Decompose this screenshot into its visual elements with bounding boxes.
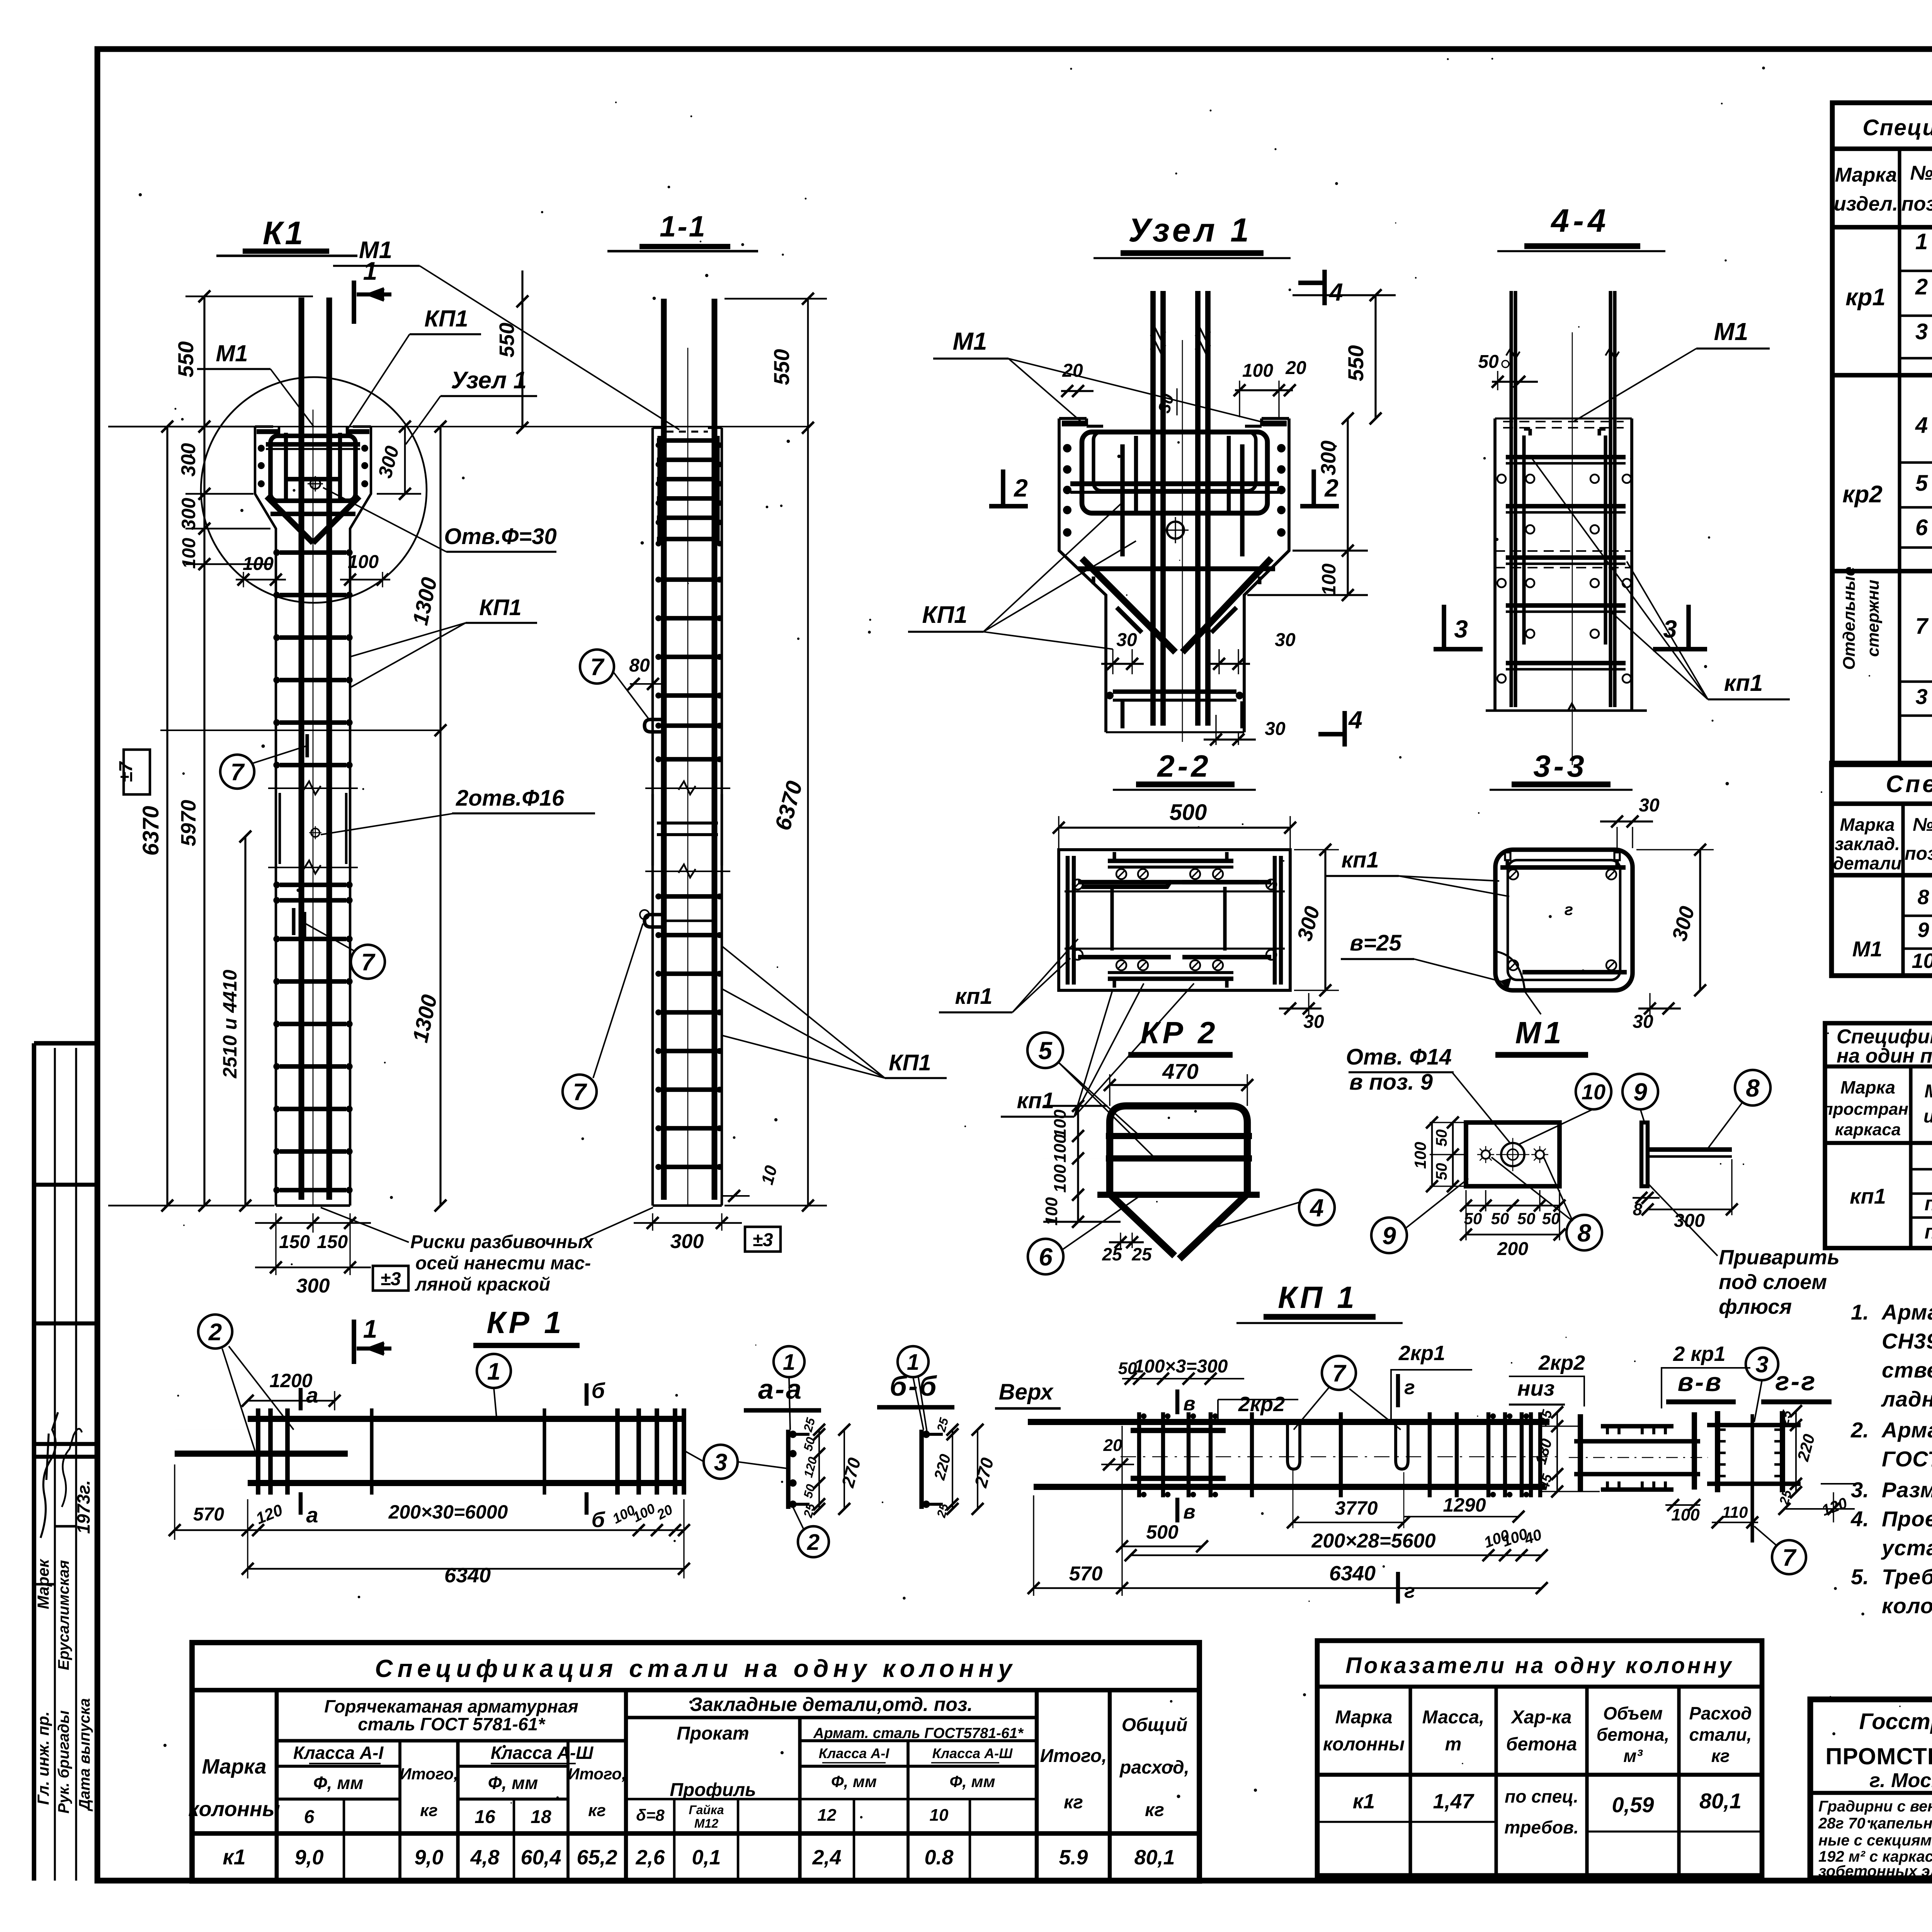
svg-text:КП1: КП1 (424, 306, 468, 332)
g-g circled 7 (1772, 1540, 1806, 1574)
dims 300 300 100 left head (203, 427, 205, 564)
svg-text:3: 3 (1663, 615, 1677, 643)
M1 dims bottom (1466, 1205, 1560, 1207)
column K1 top level line (162, 426, 810, 427)
uzel1 bottom rung (1113, 689, 1236, 694)
svg-text:80,1: 80,1 (1699, 1789, 1742, 1813)
svg-text:бетона: бетона (1506, 1734, 1577, 1755)
svg-text:поз. 7: поз. 7 (1925, 1221, 1932, 1243)
svg-text:100: 100 (1051, 1134, 1070, 1163)
svg-text:Марка: Марка (202, 1755, 267, 1778)
left margin stamp table (34, 1041, 97, 1046)
svg-text:2: 2 (1915, 274, 1928, 299)
svg-text:Требования к бетону и стали и: Требования к бетону и стали и указания п… (1882, 1565, 1932, 1589)
svg-text:простран.: простран. (1823, 1100, 1913, 1119)
44 rungs (1506, 455, 1626, 459)
svg-text:1200: 1200 (269, 1370, 312, 1391)
svg-text:3: 3 (1454, 615, 1468, 643)
svg-text:5.9: 5.9 (1059, 1846, 1088, 1869)
svg-text:ПРОМСТРОЙПРОЕКТ: ПРОМСТРОЙПРОЕКТ (1825, 1743, 1932, 1769)
M1 dims left 50 50 100 (1452, 1122, 1454, 1186)
svg-text:Арматурные изделия должны отве: Арматурные изделия должны отвечать требо… (1881, 1418, 1932, 1442)
uzel1 concrete outline (1059, 418, 1106, 732)
svg-text:ляной краской: ляной краской (415, 1274, 550, 1295)
svg-text:Риски разбивочных: Риски разбивочных (410, 1232, 594, 1252)
KR1 circled 2 (198, 1315, 232, 1349)
svg-text:требов.: требов. (1504, 1817, 1578, 1837)
M1 side view (1641, 1122, 1648, 1186)
svg-text:зобетонных элементов: зобетонных элементов (1818, 1863, 1932, 1880)
svg-text:2отв.Ф16: 2отв.Ф16 (456, 786, 565, 811)
svg-text:80,1: 80,1 (1134, 1846, 1175, 1869)
svg-text:30: 30 (1303, 1012, 1324, 1032)
v-v centerline (1569, 1457, 1708, 1458)
column 1-1 head rungs (657, 438, 718, 443)
svg-text:кп1: кп1 (955, 984, 992, 1009)
column K1 concrete outline head (255, 427, 276, 1206)
uzel1 dims right (1374, 295, 1376, 418)
svg-text:6370: 6370 (138, 806, 163, 855)
svg-text:6: 6 (304, 1807, 315, 1827)
2-2 top KR2 plate and bars (1108, 859, 1233, 863)
plusminus 3 box right column (745, 1227, 781, 1252)
svg-text:Общий: Общий (1122, 1715, 1188, 1735)
v-v dims 45 180 45 (1556, 1412, 1558, 1492)
2-2 dims (1059, 827, 1290, 828)
svg-text:1973г.: 1973г. (73, 1480, 94, 1534)
svg-text:Гл. инж. пр.: Гл. инж. пр. (34, 1711, 52, 1805)
svg-text:7: 7 (1782, 1544, 1797, 1571)
svg-text:а-а: а-а (758, 1374, 803, 1405)
title block (1810, 1699, 1932, 1878)
svg-text:ственный каркас-при помощи сва: ственный каркас-при помощи сварочных кле… (1882, 1358, 1932, 1382)
svg-text:2510 и 4410: 2510 и 4410 (219, 969, 241, 1078)
svg-text:кр1: кр1 (1845, 284, 1886, 311)
2-2 anchor stubs down (1110, 887, 1114, 951)
svg-text:0.8: 0.8 (924, 1846, 953, 1869)
svg-text:Ф, мм: Ф, мм (949, 1772, 995, 1791)
svg-text:КП 1: КП 1 (1278, 1280, 1357, 1315)
svg-text:±7: ±7 (116, 761, 136, 782)
svg-text:300: 300 (178, 498, 199, 530)
g-g dims right (1795, 1411, 1797, 1492)
svg-text:5.: 5. (1851, 1565, 1869, 1589)
svg-text:12: 12 (818, 1806, 837, 1825)
svg-text:колонны: колонны (1323, 1734, 1405, 1755)
svg-text:г: г (1404, 1580, 1415, 1602)
svg-text:Спецификация стали на одну зак: Спецификация стали на одну закладную дет… (1886, 771, 1932, 798)
M1 circled pos numbers (1576, 1074, 1611, 1109)
KR1 bottom chord bar (248, 1480, 684, 1486)
svg-text:±3: ±3 (380, 1269, 401, 1289)
uzel1 section marks 4-4 (1322, 270, 1327, 305)
svg-text:М1: М1 (1714, 318, 1748, 345)
KP1 left block kr2 bars in plan (1131, 1428, 1226, 1433)
svg-text:6340: 6340 (1329, 1562, 1376, 1585)
dim 300 right head (404, 427, 406, 494)
svg-text:550: 550 (173, 341, 198, 377)
svg-text:кг: кг (588, 1801, 606, 1820)
svg-text:каркаса: каркаса (1835, 1120, 1901, 1139)
svg-text:3.: 3. (1851, 1478, 1869, 1502)
svg-text:Показатели на одну колонну: Показатели на одну колонну (1345, 1653, 1734, 1678)
svg-text:100: 100 (1051, 1109, 1070, 1138)
svg-text:80: 80 (629, 655, 650, 676)
g-g dim 110 (1712, 1522, 1758, 1523)
svg-text:3770: 3770 (1335, 1497, 1378, 1519)
svg-text:1: 1 (487, 1358, 500, 1385)
svg-text:25: 25 (1131, 1244, 1152, 1264)
column K1 taper stirrup (270, 512, 355, 516)
3-3 corner cut flag (1495, 951, 1525, 990)
svg-text:2,6: 2,6 (635, 1846, 665, 1869)
svg-text:на один пространственный карка: на один пространственный каркас (1837, 1045, 1932, 1067)
svg-text:0,59: 0,59 (1612, 1793, 1654, 1817)
KR1 dim 1200 (248, 1400, 335, 1402)
svg-text:10: 10 (1582, 1080, 1605, 1104)
svg-text:Марек: Марек (34, 1559, 52, 1609)
svg-text:±3: ±3 (752, 1230, 773, 1250)
g-g frame (1715, 1411, 1720, 1492)
svg-text:КР 2: КР 2 (1140, 1015, 1218, 1050)
uzel1 dim 30 bottom (1215, 715, 1216, 745)
plusminus 7 box (124, 750, 150, 794)
svg-text:б-б: б-б (889, 1371, 938, 1402)
svg-text:2кр1: 2кр1 (1398, 1342, 1445, 1365)
svg-text:Дата выпуска: Дата выпуска (76, 1698, 93, 1811)
svg-text:500: 500 (1170, 800, 1207, 825)
svg-text:18: 18 (531, 1807, 551, 1827)
svg-text:2: 2 (208, 1319, 222, 1345)
KR2 dim 470 (1110, 1084, 1247, 1086)
dim 550 right of 1-1 (807, 299, 809, 428)
svg-text:5970: 5970 (177, 800, 200, 846)
44 anchor verticals (1522, 435, 1526, 645)
svg-text:Итого,: Итого, (568, 1765, 626, 1783)
svg-text:Узел 1: Узел 1 (451, 367, 527, 394)
KP1 pos7 U loops (1287, 1424, 1300, 1469)
KP1 bottom chord (1034, 1484, 1546, 1490)
svg-text:стержни: стержни (1864, 580, 1883, 657)
svg-text:2: 2 (1324, 474, 1338, 502)
svg-text:100: 100 (1318, 563, 1340, 596)
svg-text:Класса А-Ш: Класса А-Ш (491, 1743, 594, 1763)
a-a dims (818, 1430, 820, 1509)
svg-text:кг: кг (1145, 1800, 1164, 1820)
svg-text:кп1: кп1 (1724, 670, 1763, 696)
svg-text:в-в: в-в (1678, 1367, 1723, 1397)
3-3 rebar dots (1508, 869, 1518, 879)
svg-text:Класса А-Ш: Класса А-Ш (932, 1745, 1013, 1761)
g-g circled 3 (1746, 1348, 1778, 1380)
svg-text:570: 570 (1069, 1563, 1103, 1585)
hole otv f30 (310, 479, 320, 489)
svg-text:Спецификация и выборка стали н: Спецификация и выборка стали на одно арм… (1862, 115, 1932, 140)
svg-text:7: 7 (231, 759, 245, 786)
svg-text:низ: низ (1517, 1376, 1555, 1400)
svg-text:100: 100 (1242, 361, 1273, 381)
svg-text:Гайка: Гайка (689, 1803, 724, 1817)
svg-text:2: 2 (807, 1530, 820, 1555)
KR1 section marks a and b (299, 1388, 303, 1410)
svg-text:осей нанести мас-: осей нанести мас- (415, 1253, 591, 1274)
KP1 mid cross ticks (1250, 1412, 1254, 1497)
svg-text:Ерусалимская: Ерусалимская (55, 1560, 72, 1670)
b-b section bars (919, 1430, 924, 1509)
svg-text:Рук. бригады: Рук. бригады (55, 1710, 72, 1813)
3-3 dims (1600, 820, 1653, 822)
KR2 circled numbers (1027, 1032, 1063, 1068)
svg-text:8: 8 (1577, 1219, 1591, 1247)
svg-text:КП1: КП1 (479, 595, 522, 620)
svg-text:150: 150 (279, 1232, 310, 1252)
svg-text:16: 16 (474, 1807, 495, 1827)
svg-text:издел.: издел. (1923, 1106, 1932, 1127)
column K1 shaft rungs (280, 550, 346, 555)
a-a circled 2 (798, 1526, 829, 1557)
circled 7 marks K1 (220, 755, 254, 789)
44 section marks 3 (1442, 605, 1446, 648)
svg-text:8: 8 (1746, 1074, 1760, 1102)
svg-text:30: 30 (1639, 795, 1660, 816)
b-b circled 1 (898, 1346, 929, 1377)
2-2 top rebar section dots (1116, 869, 1126, 879)
svg-text:Хар-ка: Хар-ка (1510, 1707, 1572, 1728)
svg-text:1290: 1290 (1443, 1494, 1486, 1516)
svg-text:под слоем: под слоем (1719, 1270, 1827, 1294)
table5 hot-rolled steel section (275, 1690, 279, 1881)
table1 kr2 rows (1900, 461, 1932, 464)
svg-text:№: № (1910, 162, 1932, 184)
uzel1 stirrup at taper (1078, 566, 1275, 571)
a-a circled 3 leader (737, 1462, 786, 1468)
svg-text:50: 50 (1433, 1129, 1450, 1147)
svg-text:Госстрой СССР: Госстрой СССР (1859, 1709, 1932, 1734)
svg-text:1,47: 1,47 (1433, 1790, 1475, 1813)
svg-text:2кр2: 2кр2 (1538, 1351, 1585, 1374)
svg-text:флюся: флюся (1719, 1295, 1792, 1318)
svg-text:Прокат: Прокат (677, 1723, 749, 1744)
svg-text:100: 100 (348, 552, 379, 572)
svg-text:550: 550 (1344, 345, 1368, 381)
svg-text:Градирни с вентиляторами: Градирни с вентиляторами (1818, 1798, 1932, 1815)
g-g pos7 bar (1750, 1414, 1754, 1543)
44 concrete outline (1493, 418, 1497, 711)
svg-text:3: 3 (714, 1449, 727, 1476)
KR1 dim 6340 (248, 1568, 684, 1570)
svg-text:в: в (1183, 1501, 1195, 1523)
svg-text:Закладные детали,отд. поз.: Закладные детали,отд. поз. (690, 1694, 973, 1715)
svg-text:Профиль: Профиль (670, 1780, 756, 1800)
KR1 circled 3 (704, 1445, 738, 1479)
column 1-1 centerline (687, 348, 689, 1206)
svg-text:М1: М1 (359, 237, 392, 264)
svg-text:колонны ст. в пояснительной за: колонны ст. в пояснительной записке. (1882, 1594, 1932, 1618)
svg-text:δ=8: δ=8 (636, 1806, 665, 1824)
svg-text:100: 100 (1051, 1164, 1070, 1193)
svg-text:М12: М12 (694, 1816, 718, 1830)
KR1 cross bars pos3 (256, 1408, 260, 1495)
svg-text:заклад.: заклад. (1835, 834, 1900, 854)
bottom dims of 1-1 (634, 1222, 742, 1224)
a-a section bars (786, 1430, 791, 1509)
2-2 side cages KR1 in section (1066, 856, 1070, 985)
svg-text:300: 300 (296, 1275, 330, 1297)
signature squiggles (41, 1412, 58, 1538)
svg-text:2 кр1: 2 кр1 (1673, 1342, 1725, 1366)
table: Specifikaciya armaturnyh izdelij na odin prostranstvennyj karkas (1825, 1023, 1932, 1248)
svg-text:50: 50 (1491, 1209, 1509, 1228)
svg-text:9: 9 (1382, 1222, 1396, 1250)
svg-text:10: 10 (1912, 949, 1932, 973)
column K1 centerline (313, 410, 314, 1206)
svg-text:а: а (306, 1503, 318, 1527)
uzel1 M1 plates top (1062, 421, 1086, 427)
svg-text:к1: к1 (223, 1845, 246, 1869)
svg-text:ГОСТ 10922-64.: ГОСТ 10922-64. (1882, 1447, 1932, 1471)
svg-text:поз.: поз. (1905, 844, 1932, 864)
svg-text:50: 50 (1433, 1163, 1450, 1180)
svg-text:1: 1 (907, 1350, 919, 1375)
svg-text:Отдельные: Отдельные (1840, 566, 1859, 670)
circled 7 with 80 dim (580, 650, 614, 684)
svg-text:100: 100 (179, 538, 199, 569)
uzel1 rebars (1150, 291, 1156, 726)
svg-text:0,1: 0,1 (692, 1846, 721, 1869)
svg-text:5: 5 (1038, 1037, 1053, 1065)
svg-text:Марка: Марка (1335, 1707, 1392, 1728)
44 rebars (1514, 291, 1517, 707)
KP1 right block ticks (1486, 1412, 1490, 1497)
KP1 circled 7 with leaders (1322, 1356, 1356, 1390)
v-v dim 100 (1665, 1504, 1700, 1506)
table: Specifikaciya i vyborka stali na odno armaturnoe izdelie (1832, 103, 1932, 765)
svg-text:300: 300 (1317, 440, 1340, 475)
2-2 bottom mirrored plate (1108, 976, 1233, 981)
KR2 bottom dims 25 25 (1120, 1233, 1121, 1248)
svg-text:30: 30 (1265, 719, 1286, 739)
svg-text:7: 7 (1915, 614, 1929, 639)
svg-text:100×3=300: 100×3=300 (1134, 1356, 1228, 1377)
bottom dims of K1 (255, 1222, 371, 1224)
svg-text:К1: К1 (263, 215, 305, 251)
svg-text:поз. 3: поз. 3 (1925, 1192, 1932, 1215)
uzel1 dims lower 30s (1112, 649, 1113, 674)
svg-text:300: 300 (1674, 1211, 1705, 1231)
svg-text:7: 7 (361, 949, 376, 976)
svg-text:М1: М1 (1515, 1015, 1564, 1050)
svg-text:Ф, мм: Ф, мм (831, 1772, 877, 1791)
svg-text:20: 20 (1103, 1436, 1122, 1455)
uzel1 stirrup cage (1082, 432, 1267, 513)
svg-text:4.: 4. (1850, 1507, 1869, 1531)
svg-text:Отв. Ф14: Отв. Ф14 (1346, 1044, 1452, 1070)
b-b dims (952, 1430, 953, 1509)
svg-text:кп1: кп1 (1341, 847, 1379, 872)
column K1 head cage (270, 436, 355, 501)
svg-text:г: г (1565, 900, 1573, 918)
svg-text:550: 550 (495, 323, 519, 357)
svg-text:М1: М1 (953, 327, 987, 355)
svg-text:Марка: Марка (1840, 815, 1895, 835)
uzel1 dims top (1235, 389, 1293, 391)
svg-text:50: 50 (1542, 1209, 1560, 1228)
svg-text:4: 4 (1328, 278, 1343, 306)
table: Pokazateli na odnu kolonnu (1317, 1641, 1762, 1876)
svg-text:7: 7 (590, 654, 605, 680)
svg-text:КР 1: КР 1 (486, 1305, 564, 1340)
M1 side dims (1633, 1197, 1660, 1199)
2-2 concrete box (1059, 850, 1290, 990)
table: Specifikaciya stali na odnu zakladnuyu detal (1832, 763, 1932, 976)
svg-text:7: 7 (573, 1079, 587, 1105)
svg-text:Узел 1: Узел 1 (1128, 212, 1252, 249)
svg-text:50: 50 (1517, 1209, 1536, 1228)
svg-text:100: 100 (1042, 1197, 1061, 1226)
svg-text:Арматурные изделия изготовлять: Арматурные изделия изготовлять в соответ… (1881, 1300, 1932, 1324)
3-3 stirrup box (1495, 850, 1633, 990)
svg-text:Итого,: Итого, (1040, 1746, 1107, 1766)
column 1-1 M1 plate top dashed (667, 430, 708, 432)
svg-text:300: 300 (177, 443, 200, 477)
svg-text:3: 3 (1755, 1352, 1768, 1378)
column 1-1 shaft rungs upper (657, 577, 718, 582)
svg-text:1.: 1. (1851, 1300, 1869, 1324)
svg-text:2,4: 2,4 (812, 1846, 841, 1869)
svg-text:т: т (1445, 1734, 1462, 1755)
a-a circled 1 (774, 1346, 804, 1377)
svg-text:Марка: Марка (1840, 1077, 1895, 1097)
svg-text:1: 1 (1915, 229, 1928, 254)
column K1 M1 embed plates at top (257, 429, 279, 434)
svg-text:3: 3 (1915, 684, 1927, 709)
svg-text:65,2: 65,2 (577, 1846, 617, 1869)
uzel1 section marks 2-2 (1001, 469, 1005, 506)
circled 7 lower 1-1 (563, 1075, 597, 1109)
column 1-1 concrete outline (651, 428, 654, 1206)
svg-text:колонны: колонны (188, 1798, 280, 1821)
KR1 dim chain bottom (175, 1529, 684, 1531)
svg-text:Марка: Марка (1924, 1081, 1932, 1102)
svg-text:Горячекатаная арматурная: Горячекатаная арматурная (324, 1696, 578, 1716)
KR2 outline pentagon (1110, 1106, 1247, 1259)
svg-text:СН393-69: плоские каркасы-точе: СН393-69: плоские каркасы-точечной сварк… (1882, 1329, 1932, 1353)
svg-text:2-2: 2-2 (1156, 749, 1211, 783)
svg-text:к1: к1 (1353, 1790, 1375, 1813)
svg-text:в=25: в=25 (1350, 930, 1401, 956)
svg-text:20: 20 (1062, 361, 1083, 381)
svg-text:570: 570 (193, 1504, 224, 1525)
table: Specifikaciya stali na odnu kolonnu (192, 1643, 1199, 1881)
svg-text:20: 20 (1285, 358, 1306, 378)
svg-text:ные с секциями площадью: ные с секциями площадью (1818, 1832, 1932, 1849)
svg-text:Класса А-I: Класса А-I (293, 1743, 384, 1763)
svg-text:30: 30 (1116, 630, 1137, 650)
svg-text:200×30=6000: 200×30=6000 (388, 1501, 508, 1523)
M1 plate holes (1501, 1143, 1524, 1166)
svg-text:1-1: 1-1 (660, 210, 707, 243)
section cut mark 1 (bottom) (352, 1320, 356, 1364)
svg-text:4: 4 (1348, 706, 1362, 734)
plusminus 3 box left column (373, 1266, 408, 1291)
svg-text:28г 70 капельные и брызгаль-: 28г 70 капельные и брызгаль- (1818, 1815, 1932, 1832)
svg-text:6: 6 (1915, 515, 1928, 540)
uzel1 hole otv30 (1167, 522, 1184, 539)
svg-text:Объем: Объем (1603, 1703, 1663, 1723)
v-v frame (1578, 1414, 1583, 1492)
svg-text:КП1: КП1 (922, 602, 967, 628)
svg-text:Спецификация стали на одну кол: Спецификация стали на одну колонну (375, 1655, 1017, 1682)
